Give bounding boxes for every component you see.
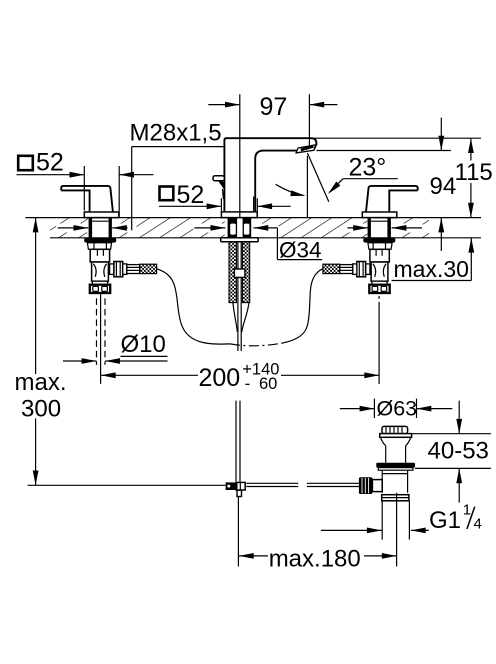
right handle lever (mirrored) xyxy=(362,186,417,218)
svg-text:40-53: 40-53 xyxy=(428,438,489,465)
svg-text:- 60: - 60 xyxy=(245,375,278,393)
knob connector xyxy=(372,480,382,492)
bottom ring xyxy=(382,495,409,501)
svg-text:52: 52 xyxy=(36,149,64,177)
left valve centreline xyxy=(100,294,102,384)
counter bottom surface line xyxy=(50,237,481,239)
dimension arrows at left hole xyxy=(58,225,128,231)
svg-text:max.30: max.30 xyxy=(394,256,469,282)
plug ring xyxy=(380,434,412,438)
spout escutcheon plate xyxy=(221,212,257,218)
counter top surface line xyxy=(25,217,481,219)
svg-text:Ø34: Ø34 xyxy=(279,237,322,262)
left handle escutcheon xyxy=(84,212,119,218)
pop-up rod knob behind spout xyxy=(213,176,224,181)
horizontal lever rod xyxy=(246,482,298,484)
label G1 1/4 (thread) xyxy=(321,501,482,534)
plug knob xyxy=(382,426,408,433)
valve locknut xyxy=(87,243,111,250)
left valve assembly below counter xyxy=(84,218,156,293)
pop-up lift rod (upper section) xyxy=(237,242,239,351)
water stream line at 23 deg xyxy=(307,153,328,202)
svg-text:1: 1 xyxy=(463,501,471,518)
svg-text:97: 97 xyxy=(260,93,288,121)
flange seal (black) xyxy=(376,463,415,468)
label M28x1,5 xyxy=(130,120,225,231)
svg-text:200: 200 xyxy=(199,364,241,392)
angle arc with arrow xyxy=(276,184,304,195)
right handle escutcheon xyxy=(362,212,397,218)
valve shank walls in counter hole xyxy=(89,218,93,237)
svg-text:M28x1,5: M28x1,5 xyxy=(130,120,222,147)
lift rod sleeve xyxy=(234,269,245,277)
rod-to-lever clamp xyxy=(226,482,237,490)
outlet pipe G1 1/4 xyxy=(381,501,383,540)
valve lower neck xyxy=(92,281,107,285)
dimension 200 +140/-60 (hole spacing) xyxy=(101,361,379,393)
valve body xyxy=(92,262,109,281)
hole for spout shank xyxy=(225,217,254,238)
valve shank xyxy=(90,249,109,262)
pop-up waste drain assembly xyxy=(359,426,415,566)
dimension 94 (height to aerator) xyxy=(430,118,457,251)
svg-text:Ø10: Ø10 xyxy=(121,331,166,358)
svg-text:52: 52 xyxy=(177,181,205,209)
right flex hose curve xyxy=(283,269,323,343)
dimension Ø63 (plug diameter) xyxy=(340,397,453,421)
hose end curves xyxy=(233,303,238,332)
left handle lever xyxy=(61,186,119,218)
spout body (centre, L-shape) xyxy=(213,138,316,217)
lower body cylinder xyxy=(381,470,383,493)
flange lip xyxy=(378,468,413,471)
hole for left valve shank xyxy=(88,217,113,238)
svg-text:max.180: max.180 xyxy=(269,546,361,573)
left flex hose curve xyxy=(157,269,230,344)
svg-text:G1: G1 xyxy=(429,507,461,534)
vertical reference line xyxy=(306,156,308,218)
dimension arrows at centre hole + label Ø34 xyxy=(194,225,322,262)
svg-text:115: 115 xyxy=(455,159,493,186)
pop-up lift rod (lower view) xyxy=(226,401,359,497)
valve bottom nut xyxy=(90,285,110,293)
hose collar xyxy=(123,264,127,275)
dimension Ø10 (supply pipe) xyxy=(63,331,168,364)
angle 23 degrees (water stream) xyxy=(276,153,398,218)
dimension max.30 (deck thickness) xyxy=(392,238,475,282)
dimension max.300 (left) xyxy=(15,218,226,486)
white pockets behind hole-dimension arrows xyxy=(56,224,88,233)
svg-text:4: 4 xyxy=(474,515,482,532)
upper body cylinder xyxy=(385,446,387,463)
aerator at spout tip xyxy=(296,145,316,153)
countertop hatched section xyxy=(25,217,481,238)
svg-text:300: 300 xyxy=(21,395,61,422)
hole for right valve shank xyxy=(368,217,393,238)
svg-text:94: 94 xyxy=(430,173,457,200)
braided hose segment xyxy=(140,264,157,273)
neck xyxy=(381,437,386,445)
dimension 115 (height to spout top) xyxy=(313,138,493,217)
dimension square-52 (spout) xyxy=(159,181,291,211)
hose hex nut xyxy=(114,262,123,277)
svg-text:Ø63: Ø63 xyxy=(377,397,418,421)
svg-text:23°: 23° xyxy=(349,153,387,181)
dimension 40-53 (basin thickness) xyxy=(412,401,491,503)
dimension max.180 (rod reach) xyxy=(238,497,396,573)
spout threaded studs in counter hole xyxy=(228,218,238,237)
spout mounting flange below counter xyxy=(221,218,259,351)
valve side outlet stub xyxy=(110,264,114,275)
spout flexible hoses (braided) xyxy=(229,242,236,303)
dimension arrows at right hole xyxy=(347,225,422,231)
left valve supply pipe (dashed, Ø10) xyxy=(97,294,106,384)
drain centreline xyxy=(396,493,398,567)
svg-text:max.: max. xyxy=(15,369,67,396)
valve locknut washer (black) xyxy=(84,238,116,243)
hose ribbed coupler xyxy=(127,265,140,274)
dimension 97 (spout projection) xyxy=(208,93,337,218)
dash-dot hose sweep curve xyxy=(230,343,283,346)
reference line at rod level xyxy=(28,484,226,486)
right valve assembly (mirrored) xyxy=(323,218,395,293)
dimension square-52 (left handle) xyxy=(17,149,154,217)
lever knob (knurled) xyxy=(359,477,373,494)
right valve centreline xyxy=(378,296,380,299)
